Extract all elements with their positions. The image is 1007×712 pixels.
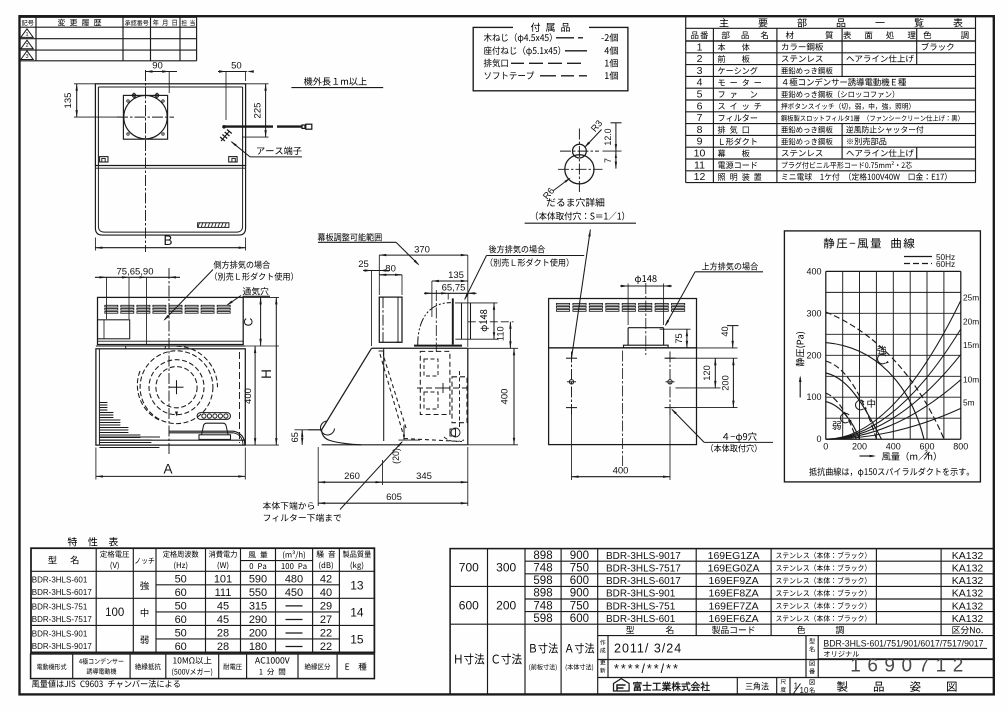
svg-text:898: 898 xyxy=(533,550,552,562)
svg-text:65,75: 65,75 xyxy=(442,282,466,293)
svg-text:169EF8ZA: 169EF8ZA xyxy=(708,588,758,600)
svg-text:120: 120 xyxy=(702,365,712,381)
svg-text:KA132: KA132 xyxy=(952,613,984,625)
svg-text:22: 22 xyxy=(320,628,332,640)
svg-text:22: 22 xyxy=(320,641,332,653)
svg-text:400: 400 xyxy=(613,465,629,476)
svg-text:20m: 20m xyxy=(963,317,979,327)
svg-text:370: 370 xyxy=(414,244,430,255)
svg-text:3: 3 xyxy=(924,450,928,457)
main parts list table 主要部品一覧表 xyxy=(686,16,976,183)
chart note xyxy=(784,231,980,482)
svg-text:KA132: KA132 xyxy=(952,550,984,562)
svg-text:50: 50 xyxy=(175,628,187,640)
svg-text:200: 200 xyxy=(852,442,867,452)
svg-text:BDR-3HLS-6017: BDR-3HLS-6017 xyxy=(606,576,681,587)
svg-text:15: 15 xyxy=(350,633,364,647)
svg-text:40: 40 xyxy=(320,587,332,599)
svg-text:75,65,90: 75,65,90 xyxy=(117,266,154,277)
svg-text:BDR-3HLS-601/751/901/6017/7517: BDR-3HLS-601/751/901/6017/7517/9017 xyxy=(823,638,983,648)
svg-text:25: 25 xyxy=(358,259,369,270)
svg-text:10: 10 xyxy=(800,686,809,695)
svg-text:50: 50 xyxy=(175,601,187,613)
svg-text:15m: 15m xyxy=(963,340,979,350)
svg-text:7: 7 xyxy=(697,112,703,124)
svg-text:111: 111 xyxy=(215,587,232,599)
svg-text:750: 750 xyxy=(570,600,589,612)
svg-text:50: 50 xyxy=(231,61,242,72)
svg-text:BDR-3HLS-9017: BDR-3HLS-9017 xyxy=(606,551,681,562)
svg-text:90: 90 xyxy=(152,61,163,72)
svg-text:200: 200 xyxy=(496,598,516,612)
svg-text:300: 300 xyxy=(496,561,516,575)
svg-text:BDR-3HLS-7517: BDR-3HLS-7517 xyxy=(32,614,92,624)
svg-text:101: 101 xyxy=(214,574,232,586)
svg-text:28: 28 xyxy=(217,628,229,640)
svg-text:605: 605 xyxy=(386,492,402,503)
svg-text:169EF6ZA: 169EF6ZA xyxy=(708,613,758,625)
svg-text:A: A xyxy=(163,462,172,477)
svg-text:898: 898 xyxy=(533,588,552,600)
svg-text:135: 135 xyxy=(448,270,464,281)
svg-text:KA132: KA132 xyxy=(952,575,984,587)
svg-text:169EF9ZA: 169EF9ZA xyxy=(708,575,758,587)
svg-text:290: 290 xyxy=(249,614,267,626)
svg-text:BDR-3HLS-901: BDR-3HLS-901 xyxy=(32,628,88,638)
svg-text:315: 315 xyxy=(249,601,267,613)
svg-text:11: 11 xyxy=(694,159,705,171)
svg-text:(20): (20) xyxy=(391,448,401,464)
svg-text:25m: 25m xyxy=(963,293,979,303)
svg-text:450: 450 xyxy=(285,587,303,599)
svg-text:590: 590 xyxy=(249,574,267,586)
svg-text:BDR-3HLS-751: BDR-3HLS-751 xyxy=(606,601,676,612)
svg-text:4: 4 xyxy=(697,77,703,89)
svg-text:5: 5 xyxy=(697,89,703,101)
svg-text:200: 200 xyxy=(806,350,821,360)
svg-text:KA132: KA132 xyxy=(952,600,984,612)
svg-text:3: 3 xyxy=(697,65,703,77)
svg-text:1690712: 1690712 xyxy=(850,656,969,677)
svg-text:900: 900 xyxy=(570,588,589,600)
svg-text:42: 42 xyxy=(320,574,332,586)
svg-text:748: 748 xyxy=(533,563,552,575)
svg-text:12.0: 12.0 xyxy=(603,128,613,145)
svg-text:200: 200 xyxy=(249,628,267,640)
svg-text:****/**/**: ****/**/** xyxy=(614,662,680,676)
svg-text:BDR-3HLS-7517: BDR-3HLS-7517 xyxy=(606,563,681,574)
svg-text:BDR-3HLS-6017: BDR-3HLS-6017 xyxy=(32,587,92,597)
svg-text:3: 3 xyxy=(25,54,28,60)
svg-text:800: 800 xyxy=(953,442,968,452)
svg-text:BDR-3HLS-601: BDR-3HLS-601 xyxy=(606,614,676,625)
svg-text:169EG0ZA: 169EG0ZA xyxy=(708,563,760,575)
svg-text:0: 0 xyxy=(816,434,821,444)
svg-text:200: 200 xyxy=(720,375,730,391)
svg-text:2011/ 3/24: 2011/ 3/24 xyxy=(614,641,682,655)
svg-text:10: 10 xyxy=(694,148,706,160)
svg-text:750: 750 xyxy=(570,563,589,575)
svg-text:7: 7 xyxy=(603,158,613,163)
svg-text:BDR-3HLS-901: BDR-3HLS-901 xyxy=(606,588,676,599)
svg-text:13: 13 xyxy=(350,579,364,593)
projection and scale cells xyxy=(450,549,994,695)
svg-text:600: 600 xyxy=(570,575,589,587)
svg-text:BDR-3HLS-601: BDR-3HLS-601 xyxy=(32,574,88,584)
svg-text:28: 28 xyxy=(217,641,229,653)
svg-text:0: 0 xyxy=(823,442,828,452)
dimension B xyxy=(63,61,383,253)
accessories box 付属品 xyxy=(473,22,628,90)
note JIS xyxy=(32,680,180,688)
svg-text:60: 60 xyxy=(175,641,187,653)
svg-text:480: 480 xyxy=(285,574,303,586)
svg-text:6: 6 xyxy=(697,100,703,112)
revision history table xyxy=(20,17,197,61)
svg-text:KA132: KA132 xyxy=(952,588,984,600)
svg-text:60: 60 xyxy=(175,587,187,599)
svg-text:135: 135 xyxy=(63,93,74,109)
svg-text:169EF7ZA: 169EF7ZA xyxy=(708,600,758,612)
svg-text:300: 300 xyxy=(806,308,821,318)
svg-text:C: C xyxy=(242,317,256,326)
svg-text:1: 1 xyxy=(25,32,28,38)
svg-text:27: 27 xyxy=(320,614,332,626)
svg-text:60: 60 xyxy=(175,614,187,626)
svg-text:9: 9 xyxy=(697,136,703,148)
svg-text:BDR-3HLS-751: BDR-3HLS-751 xyxy=(32,601,88,611)
svg-text:400: 400 xyxy=(886,442,901,452)
svg-text:180: 180 xyxy=(249,641,267,653)
svg-text:400: 400 xyxy=(499,389,510,405)
svg-text:1: 1 xyxy=(697,41,703,53)
svg-text:345: 345 xyxy=(416,471,432,482)
label 本体下端からフィルター下端まで xyxy=(263,244,584,521)
svg-text:598: 598 xyxy=(533,575,552,587)
svg-text:12: 12 xyxy=(694,171,706,183)
label 4-phi9 holes xyxy=(549,262,773,480)
svg-text:2: 2 xyxy=(25,43,28,49)
svg-text:65: 65 xyxy=(290,432,300,442)
svg-text:110: 110 xyxy=(496,326,506,341)
svg-text:2: 2 xyxy=(697,53,703,65)
daruma leader arrow xyxy=(525,118,636,358)
svg-text:598: 598 xyxy=(533,613,552,625)
svg-text:100: 100 xyxy=(105,607,124,619)
svg-text:B: B xyxy=(163,233,172,248)
svg-text:10m: 10m xyxy=(963,375,979,385)
svg-text:H: H xyxy=(259,369,274,379)
svg-text:45: 45 xyxy=(217,601,229,613)
svg-text:14: 14 xyxy=(350,606,364,620)
dimension A xyxy=(95,233,420,479)
svg-text:45: 45 xyxy=(217,614,229,626)
svg-text:5m: 5m xyxy=(963,397,975,407)
svg-text:40: 40 xyxy=(720,326,730,336)
svg-text:225: 225 xyxy=(252,103,263,119)
svg-text:700: 700 xyxy=(459,561,479,575)
svg-text:260: 260 xyxy=(344,471,360,482)
svg-text:900: 900 xyxy=(570,550,589,562)
motor spec strip xyxy=(31,537,375,679)
svg-text:75: 75 xyxy=(674,333,684,343)
svg-text:400: 400 xyxy=(243,388,254,404)
svg-text:KA132: KA132 xyxy=(952,563,984,575)
svg-text:400: 400 xyxy=(806,266,821,276)
svg-text:748: 748 xyxy=(533,600,552,612)
svg-text:BDR-3HLS-9017: BDR-3HLS-9017 xyxy=(32,641,92,651)
svg-text:60Hz: 60Hz xyxy=(936,260,955,269)
svg-text:29: 29 xyxy=(320,601,332,613)
svg-text:100: 100 xyxy=(806,392,821,402)
svg-text:8: 8 xyxy=(697,124,703,136)
svg-text:169EG1ZA: 169EG1ZA xyxy=(708,550,760,562)
svg-text:50: 50 xyxy=(175,574,187,586)
svg-text:550: 550 xyxy=(249,587,267,599)
svg-text:80: 80 xyxy=(385,264,396,275)
svg-text:600: 600 xyxy=(570,613,589,625)
svg-text:600: 600 xyxy=(459,598,479,612)
